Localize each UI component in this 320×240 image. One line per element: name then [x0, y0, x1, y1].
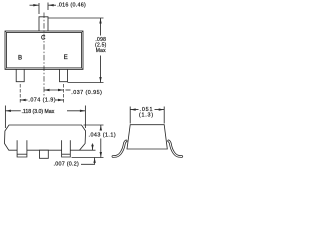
side view lead C (middle, far side) [40, 150, 49, 158]
dim .098 extension line bottom [68, 82, 104, 84]
dim .118 line [5, 110, 20, 112]
svg-text:C: C [41, 35, 46, 42]
seating plane line [72, 157, 104, 159]
dim .051 line [130, 109, 164, 111]
body bottom extension line [80, 149, 96, 151]
tab lead (collector) top [39, 17, 48, 31]
arrowheads [6, 4, 164, 163]
svg-text:.037 (0.95): .037 (0.95) [71, 90, 102, 96]
centerline vertical [43, 13, 45, 97]
dim .007 down arrow shaft [92, 144, 94, 151]
side view body [5, 125, 86, 150]
.016 right arrow [48, 4, 54, 6]
dim .016 extension lines [38, 3, 40, 14]
svg-text:E: E [64, 54, 68, 61]
dim .037 line [44, 89, 64, 91]
dim .098 line [100, 18, 102, 36]
.098 up arrow [99, 18, 101, 23]
.074 left arrow [20, 99, 25, 101]
end view right gull-wing lead [169, 141, 182, 157]
svg-text:.016 (0.46): .016 (0.46) [57, 3, 86, 9]
.007 up arrow [93, 158, 95, 163]
side view lead B [17, 140, 27, 157]
bottom lead E [60, 69, 68, 81]
.074 right arrow [58, 99, 63, 101]
.037 right arrow [58, 89, 63, 91]
dim .016 arrow shafts [30, 4, 39, 6]
.051 right arrow [159, 108, 164, 110]
svg-text:B: B [18, 54, 22, 61]
.037 left arrow [44, 89, 49, 91]
lead B centerline [19, 84, 21, 103]
.007 down arrow [91, 145, 93, 150]
.043 down arrow [100, 152, 102, 157]
lead E centerline [63, 84, 65, 103]
.043 up arrow [100, 125, 102, 130]
top view corner bevels [5, 31, 83, 69]
svg-text:.007 (0.2): .007 (0.2) [54, 162, 80, 168]
dim .043 line [100, 125, 102, 130]
top view body inner rect [7, 33, 82, 68]
top view body outer rect [5, 31, 83, 69]
dim .118 extension lines [4, 106, 6, 129]
dim .074 line [20, 99, 27, 101]
.098 down arrow [99, 77, 101, 82]
end view left gull-wing lead [113, 141, 126, 157]
side view lead E [62, 140, 71, 157]
.118 right arrow [80, 110, 85, 112]
svg-text:(1.3): (1.3) [139, 113, 154, 119]
dim .007 leader and up arrow shaft [81, 158, 95, 165]
svg-text:Max: Max [96, 48, 106, 54]
svg-text:.074 (1.9): .074 (1.9) [28, 98, 56, 104]
svg-text:.043 (1.1): .043 (1.1) [89, 132, 117, 138]
dim .051 ext ticks [129, 107, 131, 124]
.118 left arrow [6, 110, 11, 112]
.016 left arrow [33, 4, 39, 6]
dim .043 extension line top [84, 124, 104, 126]
bottom lead B [16, 69, 24, 81]
end view body [127, 125, 167, 149]
.051 left arrow [130, 108, 135, 110]
svg-text:.118 (3.0) Max: .118 (3.0) Max [22, 109, 55, 115]
dim .098 extension line top [48, 17, 104, 19]
